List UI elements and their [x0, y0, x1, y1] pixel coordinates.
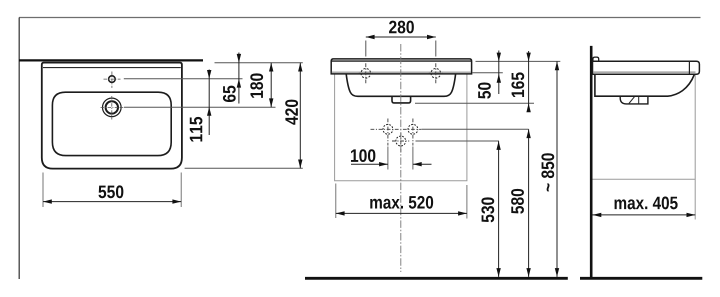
dimension 280 line — [366, 36, 436, 38]
wall line (plan) — [19, 59, 203, 61]
wall line (side) — [590, 46, 593, 277]
dimension 420 label — [285, 100, 298, 125]
dimension 180 label — [250, 73, 263, 97]
dimension 530 line — [498, 141, 500, 277]
rim outline (front) — [331, 59, 471, 74]
dimension 50 label — [478, 82, 491, 98]
rim deck edge line (front) — [331, 60, 471, 62]
drain hole dashed circle (front) — [396, 136, 406, 146]
clearance rectangle bottom line (side) — [593, 178, 696, 180]
drain hole centermarks (front) — [392, 133, 409, 154]
dimension 180 line — [270, 63, 272, 107]
extension line drain (plan) — [124, 106, 276, 108]
tap hole circle (plan) — [109, 76, 116, 83]
page frame left border line — [18, 18, 20, 280]
dimension 100 label — [351, 149, 375, 162]
dimension 550 line — [43, 201, 181, 203]
dimension 165 label — [511, 72, 524, 97]
dimension ~850 line — [556, 61, 558, 277]
drain outlet diagonal (side) — [629, 97, 635, 104]
basin rear deck edge line (plan) — [43, 67, 181, 69]
dimension 65 line — [238, 53, 240, 104]
dimension 580 line — [528, 129, 530, 277]
extension line tap hole (plan) — [124, 78, 243, 80]
dimension ~850 label — [541, 153, 554, 191]
dimension 550 label — [98, 185, 123, 198]
dimension max520 label — [370, 196, 433, 209]
basin body outline (front) — [346, 74, 455, 96]
floor line (side) — [580, 277, 702, 280]
extension line top (plan, y=62.7) — [215, 62, 303, 64]
extension line fixing holes (y=129.3) — [422, 128, 529, 130]
drain inner circle (plan) — [106, 101, 118, 113]
dimension 280 extension lines — [365, 41, 367, 57]
dimension 580 label — [511, 189, 524, 214]
tap hole dashed circle left (front) — [361, 69, 371, 79]
tap hole centermarks (front) — [359, 63, 443, 83]
floor line (front) — [305, 277, 568, 280]
dimension 115 line — [208, 70, 210, 136]
fixing hole dashed circle left — [383, 124, 393, 134]
dimension max520 extension lines — [335, 184, 337, 219]
page frame top border line — [19, 17, 701, 19]
dimension max405 line — [593, 214, 696, 216]
rim outline (side) — [593, 61, 700, 74]
drain box (front) — [392, 96, 411, 103]
tap hole dashed circle right (front) — [431, 69, 441, 79]
dimension 530 label — [481, 197, 494, 222]
drain outlet (side) — [620, 96, 648, 104]
tap hole centermarks — [104, 72, 121, 88]
dimension 550 extension lines — [42, 173, 44, 208]
rim inner gray line (side) — [593, 71, 696, 73]
basin inner bowl outline (plan) — [52, 92, 171, 155]
extension line rim bottom (y=72.8) — [472, 72, 503, 74]
furniture clearance rectangle (front, light) — [335, 75, 467, 181]
drain outer circle (plan) — [103, 98, 122, 117]
dimension 420 line — [299, 63, 301, 169]
extension line rim top (y=61.4) — [476, 60, 561, 62]
dimension 50 line — [498, 51, 500, 95]
dimension max405 label — [615, 197, 678, 210]
clearance vertical gray line (side) — [694, 74, 696, 219]
fixing holes centermarks — [371, 119, 422, 146]
dimension 280 label — [389, 21, 414, 34]
rim inner vertical line (side) — [688, 61, 690, 74]
dimension 115 label — [190, 117, 203, 142]
fixing hole dashed circle right — [408, 124, 418, 134]
back ledge bump (side) — [593, 57, 599, 61]
centerline (front) — [400, 44, 402, 272]
extension line drain box bottom (y=103.3) — [415, 102, 534, 104]
dimension max520 line — [336, 212, 467, 214]
rim inner gray line (front) — [332, 71, 471, 73]
basin outer outline (plan) — [42, 63, 182, 169]
dimension 165 line — [528, 51, 530, 112]
extension line basin bottom (plan) — [185, 167, 303, 169]
extension line drain hole (y=141) — [416, 140, 500, 142]
dimension 100 line — [351, 163, 388, 165]
drain centermarks — [101, 96, 124, 120]
dimension 65 label — [223, 86, 236, 102]
dimension 100 extension lines — [387, 147, 389, 170]
drain outlet inner vertical (side) — [638, 96, 640, 104]
basin body outline (side) — [595, 74, 694, 96]
